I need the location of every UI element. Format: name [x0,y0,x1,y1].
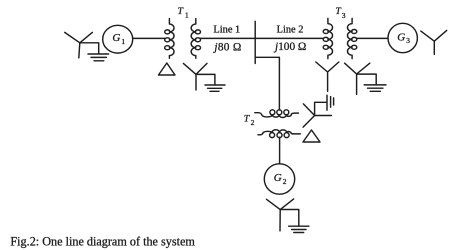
wire Line 1 (T1 to bus) [200,37,255,39]
wire T3 secondary neutral to ground [357,74,377,85]
svg-text:G: G [112,32,120,44]
wire T1 secondary neutral to ground [196,74,215,84]
svg-text:Fig.2: One line diagram of the: Fig.2: One line diagram of the system [10,234,195,248]
wire T2 primary neutral to ground [315,102,327,115]
ground T1 secondary neutral [205,85,225,91]
wire G2 neutral to ground [280,210,299,226]
svg-text:j100 Ω: j100 Ω [273,41,306,53]
svg-text:T: T [178,6,185,17]
transformer T3 secondary winding [348,18,353,58]
svg-text:j80 Ω: j80 Ω [212,41,241,53]
wire T2 to G2 [279,137,281,164]
wire Line 2 (bus to T3) [255,37,323,39]
generator G1 [103,25,133,53]
wye symbol G3 winding connection [421,30,447,54]
transformer T1 secondary winding [191,19,196,59]
svg-text:3: 3 [342,11,346,20]
wye symbol T2 primary (rotated) [303,104,331,127]
delta symbol T1 primary [159,63,176,75]
wye symbol T1 secondary [183,63,207,90]
generator G2 [264,164,294,194]
svg-text:2: 2 [251,118,255,127]
transformer T2 primary winding [255,113,299,118]
svg-text:2: 2 [283,177,287,186]
svg-text:1: 1 [121,37,125,46]
svg-text:Line 2: Line 2 [277,24,304,35]
ground T2 primary neutral [327,95,334,110]
ground G2 neutral [289,226,309,232]
wye symbol G1 winding connection [65,32,93,58]
svg-text:Line 1: Line 1 [213,24,240,35]
generator G3 [388,23,417,52]
delta symbol T2 secondary [303,130,320,142]
wire T3 to G3 [357,37,388,39]
ground T3 secondary neutral [364,85,386,91]
wire G1 to T1 [133,37,166,39]
svg-text:G: G [274,172,282,184]
svg-text:G: G [397,31,405,43]
transformer T1 primary winding [169,19,174,59]
wire G1 neutral to ground [80,43,99,54]
bus 2 busbar [254,21,256,63]
wye symbol T3 primary [316,62,339,91]
transformer T2 secondary winding [258,130,300,135]
svg-text:3: 3 [406,36,410,45]
wye symbol G2 winding connection [267,199,294,231]
wye symbol T3 secondary [345,63,370,94]
svg-text:1: 1 [185,11,189,20]
transformer T3 primary winding [328,18,333,58]
wire bus to T2 [255,57,279,110]
ground G1 neutral [88,54,109,61]
